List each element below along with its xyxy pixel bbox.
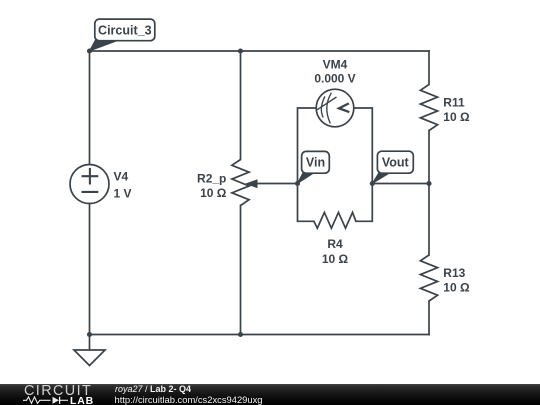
wire Vout node to right rail	[372, 183, 429, 185]
svg-text:R13: R13	[443, 266, 465, 280]
wire voltmeter left lead down to Vin node and R4	[298, 108, 317, 221]
resistor R13	[420, 255, 437, 301]
footer logo LAB	[70, 397, 94, 405]
wire right rail bottom segment	[428, 301, 430, 335]
R2_p labels	[197, 172, 227, 201]
svg-text:VM4: VM4	[323, 57, 348, 71]
wire top horizontal	[90, 50, 430, 52]
node dot top-left	[87, 48, 92, 53]
svg-text:10 Ω: 10 Ω	[443, 280, 470, 294]
R2_p wiper arrow	[245, 179, 298, 188]
footer credit line	[115, 385, 191, 394]
node dot bottom R2_p	[238, 332, 243, 337]
footer url line	[115, 395, 263, 404]
V4 value labels	[114, 170, 132, 201]
footer bar	[0, 384, 540, 405]
svg-text:V4: V4	[114, 170, 129, 184]
wire R2_p rail lower	[240, 206, 242, 335]
wire left rail lower	[89, 204, 91, 335]
wire voltmeter right lead down to Vout node and R4	[354, 108, 372, 221]
resistor R11	[420, 85, 437, 131]
node Vin	[295, 181, 300, 186]
potentiometer R2_p body	[232, 160, 249, 206]
node right rail mid	[426, 181, 431, 186]
VM4 labels	[314, 57, 355, 85]
wire right rail middle segment	[428, 131, 430, 256]
svg-text:Vout: Vout	[382, 156, 410, 170]
svg-text:R2_p: R2_p	[197, 172, 226, 186]
label Vout	[372, 151, 413, 183]
svg-text:10 Ω: 10 Ω	[443, 110, 470, 124]
svg-text:0.000 V: 0.000 V	[314, 72, 355, 86]
label Vin	[298, 151, 330, 183]
node dot top R2_p	[238, 48, 243, 53]
node Vout	[370, 181, 375, 186]
voltage source V4	[70, 165, 109, 204]
wire right rail top segment	[428, 51, 430, 85]
svg-text:Vin: Vin	[306, 156, 325, 170]
label Circuit_3	[90, 19, 155, 51]
ground	[74, 335, 105, 366]
footer logo CIRCUIT	[24, 385, 99, 397]
svg-text:Circuit_3: Circuit_3	[98, 23, 152, 37]
footer logo resistor-diode squiggle	[23, 396, 69, 405]
wire bottom horizontal	[90, 334, 430, 336]
svg-text:R11: R11	[443, 95, 465, 109]
wire left rail upper	[89, 51, 91, 165]
resistor R4	[314, 212, 356, 228]
voltmeter VM4	[316, 89, 354, 127]
svg-text:1 V: 1 V	[114, 186, 132, 200]
R4 labels	[322, 237, 349, 266]
R13 labels	[443, 266, 470, 295]
R11 labels	[443, 95, 470, 124]
node dot bottom-left	[87, 332, 92, 337]
svg-text:10 Ω: 10 Ω	[200, 186, 227, 200]
svg-text:R4: R4	[327, 237, 343, 251]
svg-text:10 Ω: 10 Ω	[322, 252, 349, 266]
wire R2_p rail upper	[240, 51, 242, 160]
